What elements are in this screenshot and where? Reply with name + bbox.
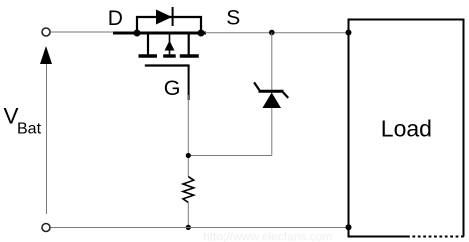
svg-text:D: D <box>108 7 123 30</box>
svg-text:Load: Load <box>381 115 432 141</box>
svg-text:Bat: Bat <box>17 121 42 138</box>
svg-text:G: G <box>164 76 181 100</box>
svg-text:S: S <box>226 7 240 30</box>
svg-text:htto;//www.elecfans.com: htto;//www.elecfans.com <box>203 230 332 242</box>
